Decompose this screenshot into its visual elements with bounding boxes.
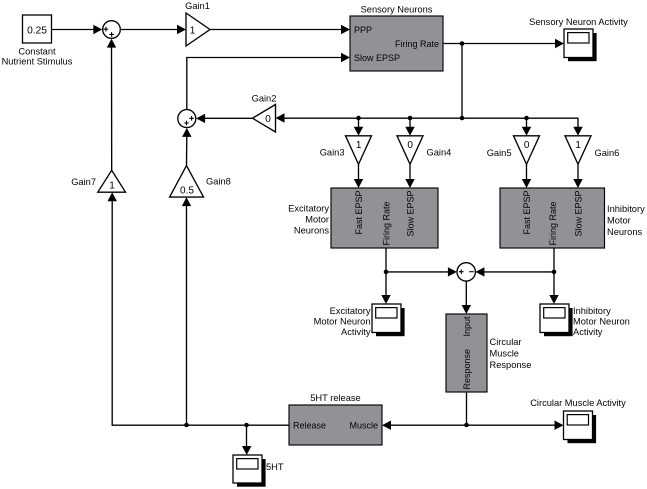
sum S3 (left + right -) — [457, 263, 475, 281]
node junction bus at feed from sensory — [460, 116, 465, 121]
subsystem block Inhibitory Motor Neurons — [500, 188, 645, 248]
wire W12: bus down into Gain4 — [405, 118, 414, 136]
wire W11: Gain3 to Excitatory Fast EPSP — [354, 164, 363, 188]
svg-text:Motor Neuron: Motor Neuron — [573, 316, 630, 326]
svg-text:PPP: PPP — [354, 25, 372, 35]
svg-text:Inhibitory: Inhibitory — [573, 306, 611, 316]
svg-text:0: 0 — [407, 140, 413, 151]
subsystem block Circular Muscle Response — [446, 314, 531, 392]
wire W28: junction down into 5HT scope — [242, 425, 251, 455]
svg-text:Firing Rate: Firing Rate — [548, 201, 558, 245]
svg-text:Motor: Motor — [607, 215, 631, 225]
subsystem block 5HT release — [289, 393, 382, 445]
svg-text:Gain5: Gain5 — [487, 148, 512, 158]
gain Gain3 value 1 — [320, 136, 372, 165]
gain Gain2 value 0 — [252, 94, 277, 133]
wire W8: Gain2 output to sum S2 — [196, 114, 252, 123]
gain Gain5 value 0 — [487, 136, 540, 165]
svg-text:Gain4: Gain4 — [427, 148, 452, 158]
wire W6: bus leftward into Gain2 input — [276, 113, 463, 122]
wire W15: Gain5 to Inhibitory Fast EPSP — [522, 164, 531, 188]
svg-text:Slow EPSP: Slow EPSP — [574, 191, 584, 237]
svg-text:Firing Rate: Firing Rate — [395, 39, 439, 49]
gain Gain6 value 1 — [565, 136, 619, 165]
svg-text:0: 0 — [265, 114, 271, 125]
wire W14: bus down into Gain5 — [522, 118, 531, 136]
svg-text:1: 1 — [575, 140, 581, 151]
wire W9: sum S2 up and right to Slow EPSP input — [187, 53, 350, 110]
node junction excitatory branch — [384, 270, 389, 275]
gain Gain4 value 0 — [397, 136, 451, 165]
svg-text:Motor: Motor — [305, 215, 329, 225]
subsystem block Excitatory Motor Neurons — [288, 188, 438, 248]
svg-text:Activity: Activity — [573, 327, 603, 337]
svg-text:Firing Rate: Firing Rate — [382, 201, 392, 245]
svg-text:Muscle: Muscle — [490, 349, 519, 359]
svg-text:Gain6: Gain6 — [595, 148, 620, 158]
svg-text:Neurons: Neurons — [607, 227, 642, 237]
svg-text:Input: Input — [462, 316, 472, 337]
wire W2: sum S1 to Gain1 — [120, 25, 186, 34]
wire W25: junction left into 5HT release Muscle input — [382, 421, 467, 430]
wire W22: junction down into Inhibitory scope — [549, 272, 558, 304]
svg-text:Fast EPSP: Fast EPSP — [354, 191, 364, 235]
node junction response branch — [464, 423, 469, 428]
svg-text:Slow EPSP: Slow EPSP — [354, 53, 400, 63]
wire W23: sum S3 down into Circular Muscle Response Input — [462, 281, 471, 314]
wire W27: 5HT release Release output leftward and up to Gain7 — [112, 199, 289, 425]
svg-text:0.5: 0.5 — [180, 186, 194, 197]
svg-text:Gain7: Gain7 — [71, 177, 96, 187]
svg-text:Circular: Circular — [490, 337, 522, 347]
gain Gain1 value 1 — [185, 1, 210, 46]
arrow into Gain7 base — [108, 192, 117, 201]
node junction Gain8 tap — [184, 423, 189, 428]
svg-text:Response: Response — [462, 349, 472, 390]
wire W5: junction down to bus — [461, 44, 463, 119]
node junction 5HT scope tap — [244, 423, 249, 428]
svg-text:1: 1 — [356, 140, 362, 151]
subsystem block Sensory Neurons — [350, 5, 443, 72]
sum S1 (inputs left + and bottom +) — [103, 21, 121, 39]
svg-text:5HT release: 5HT release — [310, 393, 360, 403]
node junction inhibitory branch — [552, 270, 557, 275]
svg-text:Sensory Neuron Activity: Sensory Neuron Activity — [529, 17, 628, 27]
svg-text:Fast EPSP: Fast EPSP — [522, 191, 532, 235]
scope 5HT — [233, 455, 284, 487]
wire W26: junction right into Circular Muscle Activity scope — [467, 421, 564, 430]
wire W31: Gain7 output up into sum S1 bottom — [107, 39, 116, 171]
svg-text:Gain2: Gain2 — [252, 94, 277, 104]
wire W16: Gain6 to Inhibitory Slow EPSP — [573, 164, 582, 188]
gain Gain8 value 0.5 — [170, 166, 231, 198]
scope Sensory Neuron Activity — [529, 17, 628, 61]
node junction on W4 at x=462 — [460, 41, 465, 46]
gain Gain7 value 1 — [71, 170, 125, 192]
scope Excitatory Motor Neuron Activity — [314, 304, 405, 337]
node junction bus at Gain4 tap — [408, 116, 413, 121]
wire W7: bus rightward then down to Gain6 — [462, 118, 583, 136]
wire W3: Gain1 to Sensory Neurons PPP input — [210, 25, 350, 34]
scope Circular Muscle Activity — [530, 398, 626, 443]
node junction bus at Gain3 tap — [356, 116, 361, 121]
wire W18: junction right into sum S3 plus input — [386, 267, 457, 276]
node junction bus at Gain5 tap — [524, 116, 529, 121]
svg-text:Muscle: Muscle — [349, 420, 378, 430]
wire W19: junction down into Excitatory scope — [381, 272, 390, 304]
svg-text:Inhibitory: Inhibitory — [607, 204, 645, 214]
svg-text:Release: Release — [293, 420, 326, 430]
svg-text:Excitatory: Excitatory — [288, 204, 329, 214]
svg-text:5HT: 5HT — [266, 462, 284, 472]
sum S2 (inputs right + and bottom +) — [178, 110, 196, 128]
svg-text:Response: Response — [490, 360, 532, 370]
svg-text:Gain3: Gain3 — [320, 148, 345, 158]
svg-text:Activity: Activity — [341, 327, 371, 337]
constant block Constant Nutrient Stimulus value 0.25 — [2, 15, 73, 66]
wire W30: Gain8 output up into sum S2 bottom — [182, 128, 191, 166]
svg-text:Gain1: Gain1 — [185, 1, 210, 11]
svg-text:Sensory Neurons: Sensory Neurons — [361, 5, 433, 15]
svg-text:Circular Muscle Activity: Circular Muscle Activity — [530, 398, 626, 408]
wire W10: bus down into Gain3 — [354, 118, 363, 136]
svg-text:0: 0 — [524, 140, 530, 151]
svg-text:Constant: Constant — [18, 47, 56, 57]
svg-text:Slow EPSP: Slow EPSP — [406, 191, 416, 237]
svg-text:0.25: 0.25 — [27, 25, 47, 36]
wire W24: Response output down to junction — [466, 392, 468, 425]
wire W21: junction left into sum S3 minus input — [475, 267, 554, 276]
svg-text:Gain8: Gain8 — [206, 177, 231, 187]
svg-text:Motor Neuron: Motor Neuron — [314, 316, 371, 326]
svg-text:1: 1 — [190, 25, 196, 36]
wire W20: Inhibitory Firing Rate down to junction — [553, 248, 555, 272]
wire W1: constant output to sum S1 — [52, 25, 103, 34]
svg-text:Excitatory: Excitatory — [330, 306, 371, 316]
svg-text:Neurons: Neurons — [294, 226, 329, 236]
wire W29: junction up into Gain8 base — [182, 197, 191, 425]
wire W13: Gain4 to Excitatory Slow EPSP — [405, 164, 414, 188]
wire W17: Excitatory Firing Rate down to junction — [385, 248, 387, 272]
svg-text:1: 1 — [109, 181, 115, 192]
wire W4: Firing Rate to Sensory Neuron Activity scope — [443, 39, 564, 48]
svg-text:Nutrient Stimulus: Nutrient Stimulus — [2, 56, 73, 66]
scope Inhibitory Motor Neuron Activity — [540, 304, 630, 337]
